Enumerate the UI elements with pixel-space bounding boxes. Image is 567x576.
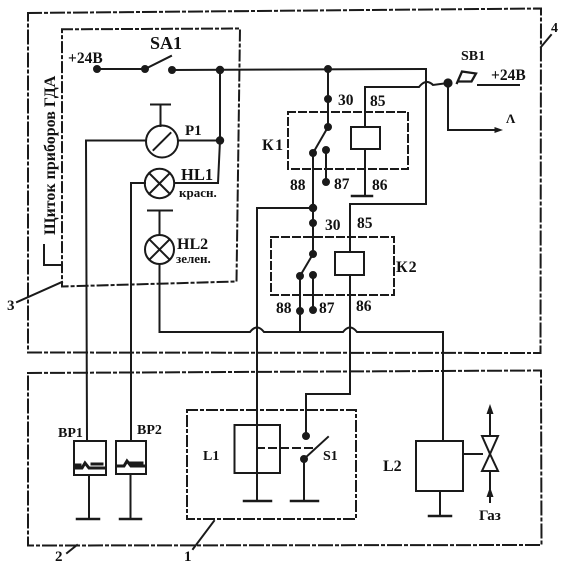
svg-text:ВР2: ВР2 <box>137 423 162 438</box>
svg-text:L1: L1 <box>203 449 219 464</box>
svg-text:+24В: +24В <box>491 67 526 84</box>
contact blade K2 <box>297 251 316 279</box>
svg-text:S1: S1 <box>323 449 338 464</box>
ground S1 <box>291 500 318 503</box>
label 2 leader <box>67 545 77 553</box>
valve solenoid L2 <box>416 441 463 491</box>
lamp HL2 <box>145 235 174 264</box>
mechanical link L1-S1 <box>257 447 312 449</box>
svg-text:HL1: HL1 <box>181 165 213 184</box>
label 4 leader <box>541 35 551 47</box>
node feed dot <box>94 66 100 72</box>
ground L1 <box>244 500 271 503</box>
solenoid L1 <box>235 425 281 473</box>
svg-text:86: 86 <box>356 298 372 315</box>
svg-text:+24В: +24В <box>68 50 103 67</box>
relay K2 coil <box>335 252 364 275</box>
wire K1-88 down <box>312 153 314 208</box>
svg-text:85: 85 <box>370 93 386 110</box>
pushbutton SB1 <box>457 72 476 84</box>
wire HL2 down to bus <box>160 264 171 332</box>
wire L1 through <box>256 332 258 501</box>
switch SA1 <box>142 56 175 73</box>
svg-text:Газ: Газ <box>479 508 501 524</box>
wire K1 coil 86 to chassis <box>364 149 366 196</box>
panel caption bracket <box>44 245 60 265</box>
svg-text:30: 30 <box>338 92 354 109</box>
wire output A <box>448 83 494 130</box>
module dash-dot box (1) <box>187 410 356 519</box>
lamp HL1 <box>145 169 174 198</box>
svg-text:88: 88 <box>276 300 292 317</box>
relay K2 dashed box <box>271 237 394 295</box>
label 3 leader <box>17 282 62 302</box>
wire HL1 right <box>175 182 219 184</box>
svg-text:SB1: SB1 <box>461 49 485 64</box>
sensor BP2 <box>116 441 146 474</box>
ground BP2 <box>120 518 141 521</box>
wire L2 to ground <box>439 491 441 516</box>
wire rail corner down to K2 coil <box>350 69 426 252</box>
svg-text:2: 2 <box>55 549 63 565</box>
wire K1 coil 85 to SB1 node (hop over vertical) <box>365 82 448 127</box>
wire K1 contact 30 <box>327 69 329 127</box>
node P1 right <box>217 137 223 143</box>
wire K2 coil 86 down to S1 <box>306 275 350 436</box>
node K2-30 <box>310 220 316 226</box>
valve body <box>482 436 498 471</box>
svg-text:К1: К1 <box>262 137 285 154</box>
node K2-88 <box>297 308 303 314</box>
bus wire HL2/K2-88 to L2 with hops <box>170 328 443 441</box>
instrument panel dash-dot box (3) <box>62 29 240 287</box>
sensor BP1 <box>74 441 106 475</box>
arrowhead A <box>495 127 504 133</box>
gas inlet arrowhead <box>487 487 494 497</box>
lamp HL2 top tee <box>148 211 172 236</box>
chassis bar K1-86 <box>352 195 372 198</box>
node SB1 <box>444 79 451 86</box>
svg-text:87: 87 <box>334 176 350 193</box>
svg-text:4: 4 <box>551 21 558 36</box>
outer dash-dot frame of upper unit (4) <box>28 9 541 354</box>
svg-text:Щиток приборов ГДА: Щиток приборов ГДА <box>42 75 59 235</box>
svg-text:ВР1: ВР1 <box>58 426 83 441</box>
relay K1 dashed box <box>288 112 408 169</box>
wire K2-88 down to bus <box>299 276 301 332</box>
gauge P1 <box>146 126 178 158</box>
gauge P1 top tee <box>151 105 170 127</box>
wire P1 left to BP1 <box>86 141 146 442</box>
svg-text:3: 3 <box>7 298 15 314</box>
contact blade K1 <box>310 124 331 156</box>
stub K2-87 <box>310 272 316 313</box>
svg-text:30: 30 <box>325 217 341 234</box>
svg-text:зелен.: зелен. <box>176 251 211 266</box>
wire BP1 to ground <box>88 475 90 519</box>
ground BP1 <box>77 518 99 521</box>
wire main +24V rail <box>172 69 426 70</box>
wire P1 right <box>178 140 220 142</box>
svg-text:85: 85 <box>357 215 373 232</box>
svg-text:87: 87 <box>319 300 335 317</box>
label 1 leader <box>193 521 214 549</box>
svg-text:Λ: Λ <box>506 111 516 126</box>
svg-text:Р1: Р1 <box>185 123 202 139</box>
svg-text:86: 86 <box>372 177 388 194</box>
wire L2 to valve <box>463 453 482 455</box>
wire S1 to ground <box>303 459 305 501</box>
wire K2 contact 30 <box>312 208 314 254</box>
svg-text:L2: L2 <box>383 458 402 475</box>
node K1-88 junction <box>310 205 316 211</box>
svg-text:88: 88 <box>290 177 306 194</box>
svg-text:1: 1 <box>184 549 192 565</box>
switch S1 <box>301 433 328 462</box>
wire rail to HL1 vertical <box>218 70 220 183</box>
gas outlet line <box>489 409 491 436</box>
gas inlet line <box>489 471 491 502</box>
svg-text:К2: К2 <box>396 259 418 276</box>
stub K1-87 <box>323 147 329 185</box>
node K1-30 <box>325 96 331 102</box>
+24V underline <box>478 84 519 86</box>
wire HL1 left to BP2 <box>131 183 145 441</box>
relay K1 coil <box>351 127 380 149</box>
wire BP2 to ground <box>130 474 132 519</box>
junction bus K1-88 / K2-30 / L1 <box>257 208 313 332</box>
node K1-30 tap <box>325 66 331 72</box>
gas outlet arrowhead <box>487 404 494 414</box>
wire +24V feed <box>96 68 145 70</box>
dash-dot frame of lower unit (2) <box>28 371 542 546</box>
node P1 tap <box>217 67 223 73</box>
svg-text:красн.: красн. <box>179 185 217 200</box>
ground L2 <box>429 515 451 518</box>
svg-text:SA1: SA1 <box>150 33 182 53</box>
